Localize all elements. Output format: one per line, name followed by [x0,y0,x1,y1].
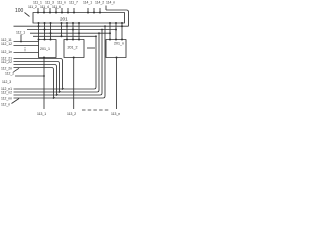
wire tick 111_1 [37,8,39,13]
svg-text:112_n2: 112_n2 [1,90,12,94]
label 112_n [1,103,10,107]
wire 112_nn [14,97,54,99]
label 100 [15,8,24,14]
wire 201 pin to 201_1 pin 2 [44,23,46,40]
node 114_1 [83,1,92,5]
block 201_n [106,40,126,58]
node 112_21 [1,56,12,60]
block 201 [33,13,125,24]
svg-text:113_n: 113_n [111,112,120,116]
node 113_2 [67,112,76,116]
svg-text:111_4: 111_4 [40,5,49,9]
node 111_1 [33,1,42,5]
node 112_2n [1,66,12,70]
junction dots ribbon tops on buses [95,25,106,37]
wire 112_2n ribbon [14,26,106,98]
node 112_n1 [1,87,12,91]
wire output 113_1 [43,58,45,110]
wire 201 pin to 201_1 pin 1 [38,23,40,40]
leader for 100 [25,13,30,17]
junction dots on 201 top [37,12,101,14]
wire tick 114_3 [99,8,101,13]
wire group n third [14,94,57,96]
label 112_2 [5,72,14,76]
node 111_3 [45,1,54,5]
svg-text:112_1: 112_1 [16,31,25,35]
wire 201 pin to 201_n pin 1 [109,23,111,40]
svg-text:111_n: 111_n [57,1,66,5]
label 112_3 [2,80,11,84]
node 111_n [57,1,66,5]
wire 114_n [106,6,129,27]
svg-text:112_n: 112_n [1,103,10,107]
node 112_n2 [1,90,12,94]
node 111_4 [40,5,49,9]
wire tick 111_4 [55,8,57,13]
svg-text:114_1: 114_1 [83,1,92,5]
node 112_22 [1,60,12,64]
wire output 113_n [116,58,118,110]
svg-text:112_2: 112_2 [5,72,14,76]
svg-text:113_1: 113_1 [37,112,46,116]
bus D [33,35,96,37]
svg-text:111_2: 111_2 [28,5,37,9]
node 114_n [106,1,115,5]
wire tick 111_3 [49,8,51,13]
wire 112_21 ribbon [14,36,97,89]
ellipsis dash between blocks [87,47,95,49]
block 201_2 [64,40,84,58]
bus B [27,29,116,31]
bus C [30,32,110,34]
wire output 113_2 [73,58,75,110]
svg-text:201_1: 201_1 [40,47,50,51]
node 111_7 [69,1,78,5]
svg-text:112_nn: 112_nn [1,96,12,100]
node 113_1 [37,112,46,116]
svg-text:112_22: 112_22 [1,60,12,64]
wire 201 pin to 201_2 pin 3 [78,23,80,40]
svg-text:112_2n: 112_2n [1,66,12,70]
svg-text:111_1: 111_1 [33,1,42,5]
wire 201 stub to bus D [61,23,63,36]
svg-text:201_n: 201_n [114,42,124,46]
node 111_2 [28,5,37,9]
wire tick 111_7 [73,8,75,13]
junction dot 112_2 on 113_1 line [43,75,45,77]
node 112_nn [1,96,12,100]
block 201_1 [39,40,57,58]
svg-text:111_3: 111_3 [45,1,54,5]
node 112_1n [1,50,12,54]
svg-text:100: 100 [15,8,24,14]
svg-text:201_2: 201_2 [68,46,78,50]
wire tick 114_1 [87,8,89,13]
bus A [14,25,129,27]
svg-text:201: 201 [60,17,68,22]
junction dots on block tops [38,39,124,41]
svg-text:114_2: 114_2 [95,1,104,5]
wire 112_n1 [14,88,63,90]
wire 201 pin to 201_n pin 3 [121,23,123,40]
leader 112_2 [14,68,20,72]
wire tick 114_2 [93,8,95,13]
node 111_6 [52,5,61,9]
wire 201 pin to 201_2 pin 2 [72,23,74,40]
wire tick 111_5 [61,8,63,13]
wire 112_n2 [14,91,60,93]
junction dots on 201 bottom [38,22,124,24]
wire 112_22 ribbon [14,33,100,92]
svg-text:112_1n: 112_1n [1,50,12,54]
ellipsis dashed line between outputs [82,109,110,111]
svg-text:112_12: 112_12 [1,42,12,46]
leader 112_1 [20,35,22,42]
wire tick 111_2 [43,8,45,13]
junction dots ribbon bottom [53,88,64,99]
label 112_1 [16,31,25,35]
wire 112_11 [14,41,39,43]
svg-text:112_3: 112_3 [2,80,11,84]
ellipsis dots group1 [24,47,27,51]
node 112_12 [1,42,12,46]
wire 201 pin to 201_1 pin 3 [50,23,52,40]
node 114_2 [95,1,104,5]
wire 112_12 [14,45,39,47]
wire group2 third ribbon [14,30,103,96]
wire 201 pin to 201_n pin 2 [115,23,117,40]
wire to 113_1 column [15,75,44,77]
junction dot leader/wire [20,41,22,43]
wire 112_1n [14,52,39,54]
junction dots on buses [38,25,124,37]
wire tick 111_6 [67,8,69,13]
wire 201 pin to 201_2 pin 1 [66,23,68,40]
svg-text:111_7: 111_7 [69,1,78,5]
leader 112_n [12,99,20,104]
node 113_n [111,112,120,116]
node 112_11 [1,38,12,42]
svg-text:114_n: 114_n [106,1,115,5]
svg-text:111_6: 111_6 [52,5,61,9]
svg-text:113_2: 113_2 [67,112,76,116]
